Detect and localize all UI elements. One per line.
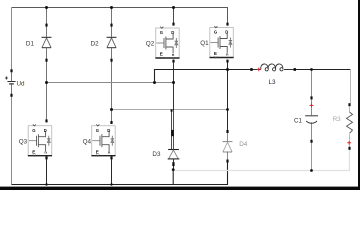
svg-text:Q2: Q2 (146, 41, 155, 48)
svg-text:Q3: Q3 (19, 138, 28, 145)
svg-text:D1: D1 (26, 41, 35, 48)
svg-text:D3: D3 (152, 151, 161, 158)
svg-text:D2: D2 (91, 41, 100, 48)
svg-text:Q1: Q1 (200, 40, 209, 47)
svg-text:L3: L3 (269, 79, 277, 86)
svg-text:R3: R3 (333, 116, 342, 123)
svg-text:D4: D4 (239, 141, 248, 148)
svg-text:C1: C1 (294, 118, 303, 125)
svg-text:Ud: Ud (17, 81, 26, 88)
svg-text:Q4: Q4 (83, 138, 92, 145)
